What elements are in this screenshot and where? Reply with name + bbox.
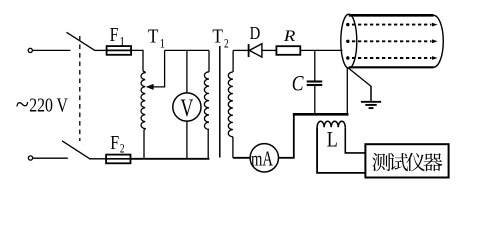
wire: top terminal to switch bbox=[33, 49, 71, 51]
svg-text:F: F bbox=[110, 23, 119, 45]
instrument box bbox=[365, 144, 448, 177]
wire: T1 winding bottom to bottom rail bbox=[143, 130, 145, 159]
resistor R bbox=[276, 46, 300, 55]
wire: top HV bus from T2 secondary to diode bbox=[233, 49, 248, 51]
svg-text:2: 2 bbox=[224, 37, 229, 51]
specimen cylinder bottom wall bbox=[349, 66, 434, 68]
wire: L left lead to instrument bottom bbox=[317, 127, 365, 173]
voltmeter V bbox=[173, 93, 201, 121]
svg-text:1: 1 bbox=[160, 37, 165, 51]
svg-text:T: T bbox=[148, 25, 159, 46]
wire: switch to fuse F1 bbox=[94, 49, 107, 51]
switch S2 blade (bottom pole) bbox=[62, 141, 90, 159]
diode D bbox=[248, 44, 250, 57]
wire: voltmeter top lead bbox=[186, 50, 188, 93]
fuse F2 bbox=[106, 155, 130, 164]
specimen cylinder left end cap bbox=[341, 14, 357, 68]
wire: diode to R bbox=[262, 49, 277, 51]
svg-text:220 V: 220 V bbox=[29, 94, 68, 116]
svg-text:R: R bbox=[283, 26, 296, 45]
capacitor C plates bbox=[307, 80, 323, 82]
node: bottom input terminal bbox=[28, 156, 32, 160]
wire: capacitor top lead bbox=[314, 50, 316, 80]
field line row 1 bbox=[346, 23, 349, 26]
field line row 3 bbox=[346, 56, 349, 59]
wire through fuse F1 bbox=[107, 49, 132, 51]
milliammeter mA bbox=[250, 144, 278, 172]
wire: voltmeter bottom lead bbox=[186, 121, 188, 159]
wire: capacitor bottom lead bbox=[314, 86, 316, 113]
switch S1 blade (top pole) bbox=[67, 32, 96, 50]
inductor L bbox=[317, 121, 345, 127]
ground bbox=[370, 86, 372, 102]
wire: T2 primary bottom to rail bbox=[207, 129, 209, 158]
svg-text:mA: mA bbox=[251, 147, 273, 170]
svg-text:D: D bbox=[250, 22, 261, 43]
switch gang link (dashed) bbox=[79, 36, 81, 141]
transformer T2 primary lead bbox=[208, 50, 210, 71]
svg-text:T: T bbox=[212, 25, 223, 46]
svg-text:1: 1 bbox=[119, 34, 125, 49]
wire: bottom terminal to switch bbox=[33, 157, 68, 159]
wire: L right lead to instrument bbox=[345, 127, 365, 153]
wire: specimen sheath down lead bbox=[346, 68, 348, 113]
field line row 2 bbox=[346, 40, 349, 43]
transformer T2 secondary winding bbox=[228, 72, 233, 137]
wire: R to specimen bbox=[300, 49, 342, 51]
node: top input terminal bbox=[28, 48, 32, 52]
LV bar (thick) bbox=[293, 113, 349, 116]
svg-text:C: C bbox=[292, 72, 304, 96]
svg-text:~: ~ bbox=[16, 89, 29, 119]
fuse F1 bbox=[107, 46, 132, 55]
transformer T2 secondary top lead bbox=[232, 50, 234, 72]
T1 wiper arrow bbox=[152, 50, 165, 87]
label 测试仪器 (test instrument) bbox=[372, 153, 442, 171]
transformer T2 primary winding bbox=[204, 72, 209, 130]
wire: top bus from wiper to T2 bbox=[165, 49, 209, 51]
specimen cylinder top wall bbox=[349, 14, 434, 17]
svg-text:V: V bbox=[180, 94, 193, 122]
transformer T1 winding (variac) bbox=[141, 71, 145, 130]
transformer T2 core bbox=[219, 46, 221, 158]
wire: T2 secondary bottom lead to mA bbox=[232, 137, 234, 158]
wire through fuse F2 and bottom rail bbox=[106, 158, 209, 160]
wire: mA to riser bbox=[279, 157, 294, 159]
wire: switch to fuse F2 bbox=[89, 158, 106, 160]
wire: slant to ground bbox=[349, 68, 371, 86]
specimen cylinder right end cap bbox=[434, 15, 444, 67]
wire: riser from mA up to LV bar bbox=[293, 113, 295, 158]
wire: fuse F1 to T1 top bbox=[131, 50, 143, 71]
svg-text:L: L bbox=[327, 128, 338, 152]
svg-text:F: F bbox=[110, 131, 119, 153]
